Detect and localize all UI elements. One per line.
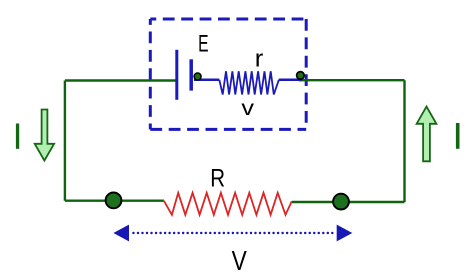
resistor r zigzag — [219, 71, 279, 94]
svg-text:E: E — [198, 31, 208, 57]
battery cell E: long plate — [175, 50, 178, 100]
wire battery to resistor r — [194, 79, 219, 82]
voltage V dotted line — [133, 232, 336, 234]
svg-text:v: v — [241, 96, 254, 120]
node small left (battery terminal) — [194, 73, 201, 80]
svg-text:V: V — [232, 246, 247, 276]
current arrow right (up) — [417, 107, 437, 162]
label I left — [16, 124, 19, 149]
wire resistor r to right node — [279, 79, 302, 82]
svg-text:R: R — [210, 164, 225, 192]
wire bottom-left horizontal — [65, 199, 164, 201]
resistor R zigzag — [164, 193, 292, 215]
voltage V dotted arrow right head — [337, 225, 353, 242]
wire right vertical — [403, 80, 405, 202]
battery cell E: short plate — [189, 59, 193, 90]
wire bottom-right horizontal — [292, 201, 405, 203]
node big right — [333, 194, 349, 210]
label I right — [456, 123, 460, 149]
current arrow left (down) — [35, 110, 54, 161]
voltage V dotted arrow left head — [113, 225, 129, 242]
dashed battery box — [150, 19, 306, 129]
node small right (box exit) — [297, 72, 305, 80]
svg-text:r: r — [255, 45, 264, 72]
wire top-right horizontal — [299, 79, 405, 81]
wire left vertical — [64, 81, 66, 201]
node big left — [106, 193, 122, 209]
wire top-left horizontal — [65, 79, 176, 81]
